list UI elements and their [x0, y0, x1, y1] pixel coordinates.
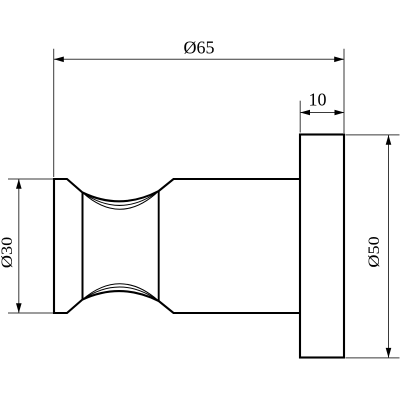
svg-text:10: 10 [309, 90, 327, 110]
dimension 10 extension line left [299, 101, 301, 133]
waist inner arc bottom 2 [83, 284, 159, 301]
svg-text:Ø50: Ø50 [365, 236, 382, 267]
dimension Ø50 extension line bottom [346, 357, 400, 359]
dimension 10 arrow left [300, 110, 310, 116]
dimension Ø30 arrow bottom [16, 303, 22, 313]
dimension Ø50 arrow top [386, 135, 392, 145]
dimension Ø30 extension line top [8, 178, 53, 180]
dimension 10 line [300, 112, 344, 114]
waist inner arc top 2 [83, 191, 159, 209]
dimension Ø30 line [18, 179, 20, 313]
dimension Ø65 extension line left [53, 49, 55, 177]
waist edge line left [82, 193, 84, 300]
dimension Ø50 line [388, 135, 390, 358]
waist inner arc bottom 1 [83, 287, 159, 301]
dimension Ø50 extension line top [346, 134, 400, 136]
dimension Ø65 extension line right [343, 49, 345, 133]
waist inner arc top 1 [83, 191, 159, 205]
dimension 10 arrow right [335, 110, 345, 116]
knob body outline [54, 179, 300, 313]
wall plate [300, 135, 344, 358]
dimension Ø65 arrow left [54, 57, 64, 63]
waist edge line right [158, 191, 160, 301]
dimension Ø50 arrow bottom [386, 348, 392, 358]
svg-text:Ø30: Ø30 [0, 237, 16, 268]
dimension Ø65 arrow right [334, 57, 344, 63]
dimension Ø65 line [54, 58, 344, 60]
svg-text:Ø65: Ø65 [184, 38, 215, 58]
dimension Ø30 arrow top [16, 179, 22, 189]
dimension Ø30 extension line bottom [8, 312, 53, 314]
